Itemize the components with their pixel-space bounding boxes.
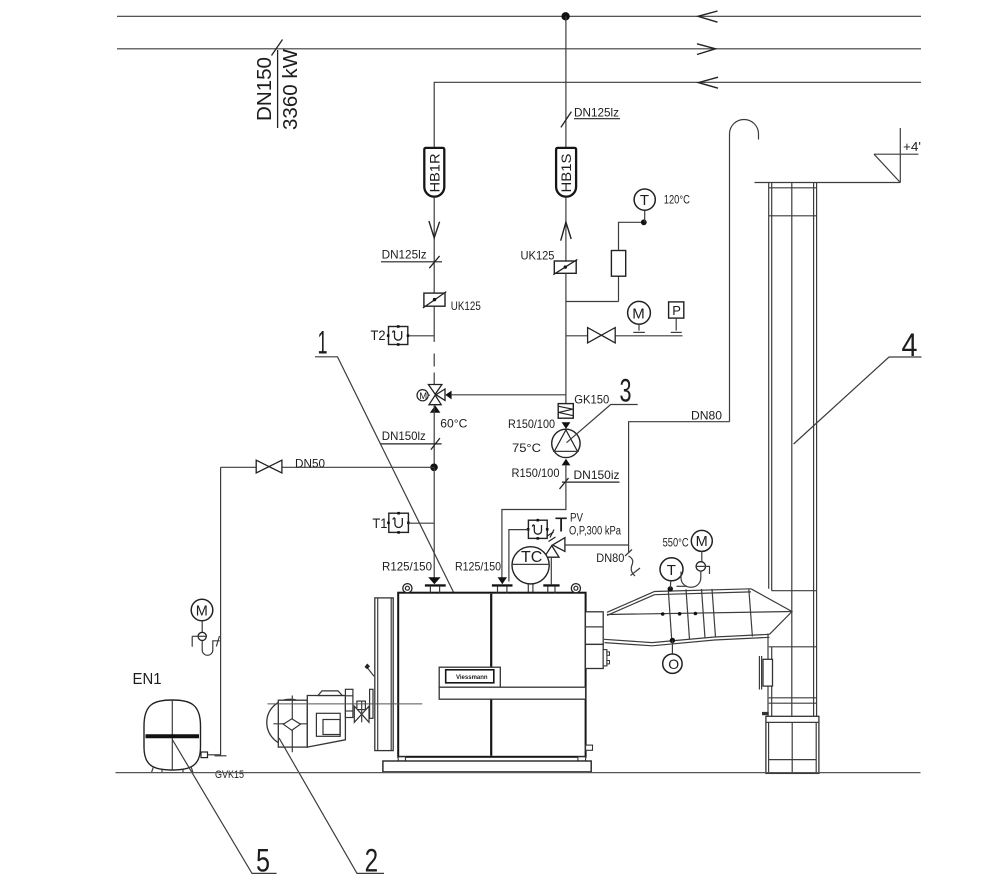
burner mounting plate (370, 689, 373, 718)
filled flow arrow into 3-way valve (445, 391, 451, 400)
thermostat T2 (371, 325, 435, 346)
leader line item 2 (279, 738, 384, 879)
svg-text:60°C: 60°C (440, 417, 467, 431)
filled arrow into boiler nozzle 1 (428, 577, 440, 584)
leader line item 3 (567, 372, 638, 442)
burner body (307, 691, 345, 747)
wire: pump down then left to boiler nozzle 2 (502, 465, 566, 577)
eyebolt left (403, 584, 412, 593)
tank nozzle and connector (201, 752, 221, 758)
drain continuation squiggle DN80 (596, 550, 640, 577)
actuator M on tank fill group (191, 599, 213, 632)
burner flange stack (345, 689, 353, 717)
Viessmann logo plate (439, 667, 500, 687)
leader line item 4 (794, 327, 922, 444)
boiler flue outlet boxes (585, 612, 609, 669)
svg-text:2: 2 (365, 843, 379, 879)
svg-text:DN125lz: DN125lz (574, 106, 619, 120)
pressure sensor P on outlet (669, 302, 684, 333)
expansion tank EN1 (133, 671, 201, 773)
branch line DN50 (221, 456, 434, 470)
small valve circle under M (696, 562, 705, 571)
flow indicator HB1S (556, 148, 576, 197)
svg-text:M: M (419, 391, 427, 402)
thermostat T1 (372, 512, 434, 534)
svg-text:O,P,300 kPa: O,P,300 kPa (569, 525, 621, 537)
label DN150 / 3360 kW (254, 49, 302, 130)
boiler nozzle flange 3 (543, 584, 559, 592)
label DN125lz (HB1S) with slash (561, 106, 620, 128)
leader line item 1 (315, 325, 461, 609)
filled arrow down into pump (562, 422, 571, 429)
globe valve on outlet (588, 328, 616, 343)
safety valve vent line DN80 with hook (565, 120, 759, 553)
svg-text:R125/150: R125/150 (455, 560, 501, 574)
node: duct bottom tap (670, 638, 675, 643)
label 60degC (440, 417, 467, 431)
svg-text:DN80: DN80 (596, 551, 624, 565)
node: junction dot at DN50 tee (430, 464, 438, 472)
wire: left drop pipe to expansion tank (215, 467, 227, 756)
pressure controller box with sensing line (509, 519, 549, 582)
node: duct top tap (668, 586, 673, 591)
svg-text:P: P (672, 303, 681, 318)
chimney base (766, 716, 819, 773)
svg-text:T1: T1 (372, 516, 387, 531)
labels R150/100 75degC (508, 417, 555, 455)
flow indicator HB1R (424, 148, 444, 197)
valve UK125 number 2 (521, 249, 578, 275)
flow arrow right on line 2 (697, 44, 716, 55)
flow arrow left on line 1 (698, 11, 718, 22)
svg-text:T: T (555, 515, 567, 537)
wire below UK125 (433, 306, 435, 384)
drain cock (circle with bar) (192, 632, 207, 646)
boiler nozzle flange 2 (492, 584, 513, 592)
burner fan housing circle (267, 699, 313, 745)
thermometer T 120degC (634, 189, 690, 210)
svg-text:M: M (632, 305, 645, 322)
svg-text:DN150: DN150 (254, 57, 276, 121)
wire: junction down to boiler nozzle (433, 467, 435, 577)
eyebolt right (571, 584, 580, 593)
svg-text:5: 5 (256, 843, 270, 879)
svg-text:R125/150: R125/150 (382, 560, 432, 574)
level mark +4ft (874, 128, 921, 183)
svg-text:4: 4 (902, 327, 918, 363)
svg-text:T: T (640, 192, 649, 209)
svg-text:GK150: GK150 (574, 392, 609, 406)
flue gas thermometer T (660, 558, 687, 589)
svg-text:R150/100: R150/100 (508, 417, 555, 431)
duct opening lines inside chimney (769, 591, 817, 647)
drain U-trap into pipe (202, 636, 220, 655)
valve UK125 (motor gate valve) (423, 292, 481, 313)
svg-text:3: 3 (620, 372, 632, 408)
valve DN50 (gate) (256, 460, 282, 473)
manometer M on outlet (628, 301, 651, 332)
svg-text:DN80: DN80 (691, 409, 722, 423)
duct nose cone into chimney (751, 589, 792, 635)
flow arrow up on HB1S pipe (561, 222, 572, 241)
svg-text:HB1S: HB1S (559, 154, 574, 193)
floor line (116, 772, 921, 774)
burner control box with cross and diamond (273, 696, 311, 753)
flow arrow left on line 3 (699, 77, 719, 88)
svg-text:DN150lz: DN150lz (382, 429, 426, 443)
svg-text:M: M (196, 603, 208, 619)
boiler ledge (439, 687, 585, 699)
duct expanding cone from boiler (604, 589, 770, 646)
label DN125lz with slash (381, 247, 442, 268)
wire below HB1S (565, 197, 567, 261)
wire from pump riser to 3-way valve (452, 394, 566, 396)
wire: HB1S line down to pump junction (565, 273, 567, 403)
svg-text:75°C: 75°C (512, 441, 541, 455)
svg-text:UK125: UK125 (521, 249, 555, 263)
leader line item 5 (172, 740, 276, 879)
svg-text:HB1R: HB1R (427, 153, 442, 192)
duct division joints (668, 589, 752, 641)
three-way mixing valve with actuator M (417, 385, 445, 405)
oxygen sensor O (663, 641, 682, 674)
safety relief valve (544, 532, 565, 584)
svg-text:3360 kW: 3360 kW (280, 49, 302, 130)
svg-text:O: O (668, 656, 679, 672)
svg-text:Viessmann: Viessmann (456, 675, 488, 681)
wire: HB1S drop from header junction (565, 16, 567, 148)
svg-text:DN150iz: DN150iz (574, 468, 620, 482)
svg-text:M: M (696, 534, 708, 550)
svg-text:DN50: DN50 (295, 456, 325, 470)
chimney top cap (755, 183, 901, 216)
strainer GK150 (558, 392, 609, 418)
boiler rails and plinth (383, 757, 591, 772)
label 550degC and damper motor M (663, 530, 713, 561)
boiler body (398, 593, 585, 757)
thermowell branch with sensor pocket (566, 210, 647, 301)
filled arrow up below 3-way valve (430, 405, 441, 412)
blowdown outlet line (566, 335, 683, 337)
return main header line 2 (117, 48, 921, 50)
svg-text:EN1: EN1 (133, 671, 162, 688)
label DN150lz with slash (380, 429, 442, 450)
burner axis line (268, 703, 423, 705)
boiler nozzle flange 1 (425, 584, 446, 592)
svg-text:120°C: 120°C (664, 195, 690, 207)
chimney cleanout door (759, 656, 772, 690)
node: junction on line 1 (561, 12, 569, 20)
chimney lower bands (762, 698, 817, 715)
svg-text:PV: PV (570, 513, 583, 525)
svg-text:GVK15: GVK15 (215, 769, 244, 781)
svg-text:T2: T2 (371, 328, 386, 343)
svg-text:UK125: UK125 (451, 299, 481, 313)
weld flag on boiler front (365, 664, 375, 677)
label GVK15 (215, 769, 244, 781)
svg-text:550°C: 550°C (663, 537, 689, 549)
svg-text:T: T (667, 562, 676, 579)
svg-text:+4': +4' (903, 139, 921, 154)
flow arrow down on HB1R pipe (429, 221, 440, 238)
filled arrow up into pump bottom (562, 459, 571, 466)
labels T PV OP300kPa (550, 513, 621, 538)
labels R150/100 and DN150iz with slash (512, 466, 620, 489)
header line 3 with elbow to HB1R (434, 82, 921, 148)
small tab on boiler right (586, 745, 593, 750)
filled arrow into boiler nozzle 2 (498, 577, 507, 584)
supply main header line 1 (117, 15, 921, 17)
slash break mark on line 2 (272, 40, 283, 56)
wire: HB1R drop pipe (433, 197, 435, 293)
pump R150/100 (circle with triangle) (552, 429, 580, 457)
wire: 3-way valve down to junction (433, 405, 435, 467)
boiler front smokebox plate (375, 598, 393, 751)
duct centerline with junction dots (607, 612, 792, 616)
svg-text:1: 1 (318, 325, 328, 361)
U-seal loop to duct (681, 566, 710, 587)
svg-text:R150/100: R150/100 (512, 466, 560, 480)
svg-text:DN125lz: DN125lz (382, 247, 427, 261)
gas armature on burner (354, 701, 369, 722)
label R125/150 (second nozzle) (455, 560, 501, 574)
boiler thermostat TC (512, 547, 549, 593)
chimney shaft walls (768, 183, 817, 774)
svg-text:TC: TC (521, 549, 542, 566)
label R125/150 (left nozzle) (382, 560, 432, 574)
